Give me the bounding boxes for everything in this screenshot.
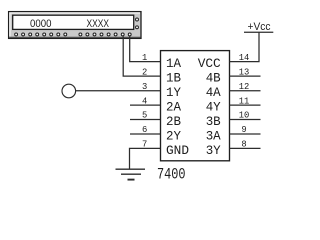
svg-text:12: 12	[239, 82, 250, 92]
display window	[13, 15, 134, 29]
wire pin 9	[230, 133, 261, 135]
svg-text:3Y: 3Y	[206, 143, 221, 158]
wire pin 4	[130, 104, 161, 106]
wire pin 8	[230, 147, 261, 149]
svg-text:6: 6	[142, 125, 147, 135]
svg-text:1A: 1A	[166, 56, 181, 71]
display module bevel highlight	[10, 13, 140, 37]
wire pin 11	[230, 104, 261, 106]
wire pin 12	[230, 90, 261, 92]
svg-text:XXXX: XXXX	[87, 18, 110, 30]
svg-text:2: 2	[142, 67, 147, 77]
input terminal circle	[62, 84, 76, 98]
wire terminal to pin 3	[75, 90, 160, 92]
svg-text:4A: 4A	[206, 85, 221, 100]
svg-text:13: 13	[239, 67, 250, 77]
svg-text:4Y: 4Y	[206, 100, 221, 115]
svg-text:5: 5	[142, 111, 147, 121]
svg-text:2Y: 2Y	[166, 129, 181, 144]
svg-text:10: 10	[239, 111, 250, 121]
wire pin 10	[230, 119, 261, 121]
svg-text:2B: 2B	[166, 114, 181, 129]
connector hole row group B	[79, 33, 131, 36]
svg-text:0000: 0000	[30, 18, 52, 30]
wire pin 7 to ground	[130, 148, 161, 168]
+Vcc rail bar	[244, 31, 273, 33]
display module bottom shadow	[10, 36, 141, 38]
module side holes	[136, 18, 139, 29]
svg-text:+Vcc: +Vcc	[248, 21, 271, 33]
IC U1 7400 body	[161, 51, 230, 161]
svg-text:VCC: VCC	[198, 56, 221, 71]
wire pin 5	[130, 119, 161, 121]
svg-text:1Y: 1Y	[166, 85, 181, 100]
svg-text:3B: 3B	[206, 114, 221, 129]
svg-text:14: 14	[239, 53, 250, 63]
svg-text:2A: 2A	[166, 100, 181, 115]
svg-text:1B: 1B	[166, 71, 181, 86]
svg-text:3A: 3A	[206, 129, 221, 144]
ground	[116, 169, 146, 179]
svg-text:11: 11	[239, 96, 250, 106]
svg-text:8: 8	[241, 140, 246, 150]
display module body	[9, 12, 141, 39]
svg-text:4B: 4B	[206, 71, 221, 86]
wire pin 14 to +Vcc	[230, 32, 260, 61]
wire module to pin 2	[123, 36, 160, 76]
svg-text:7: 7	[142, 140, 147, 150]
connector hole row group A	[15, 33, 67, 36]
svg-text:GND: GND	[166, 143, 189, 158]
wire pin 13	[230, 75, 261, 77]
svg-text:9: 9	[241, 125, 246, 135]
svg-text:1: 1	[142, 53, 147, 63]
svg-text:3: 3	[142, 82, 147, 92]
wire pin 6	[130, 133, 161, 135]
svg-text:7400: 7400	[157, 166, 186, 184]
wire module to pin 1	[130, 36, 161, 61]
svg-text:4: 4	[142, 96, 147, 106]
